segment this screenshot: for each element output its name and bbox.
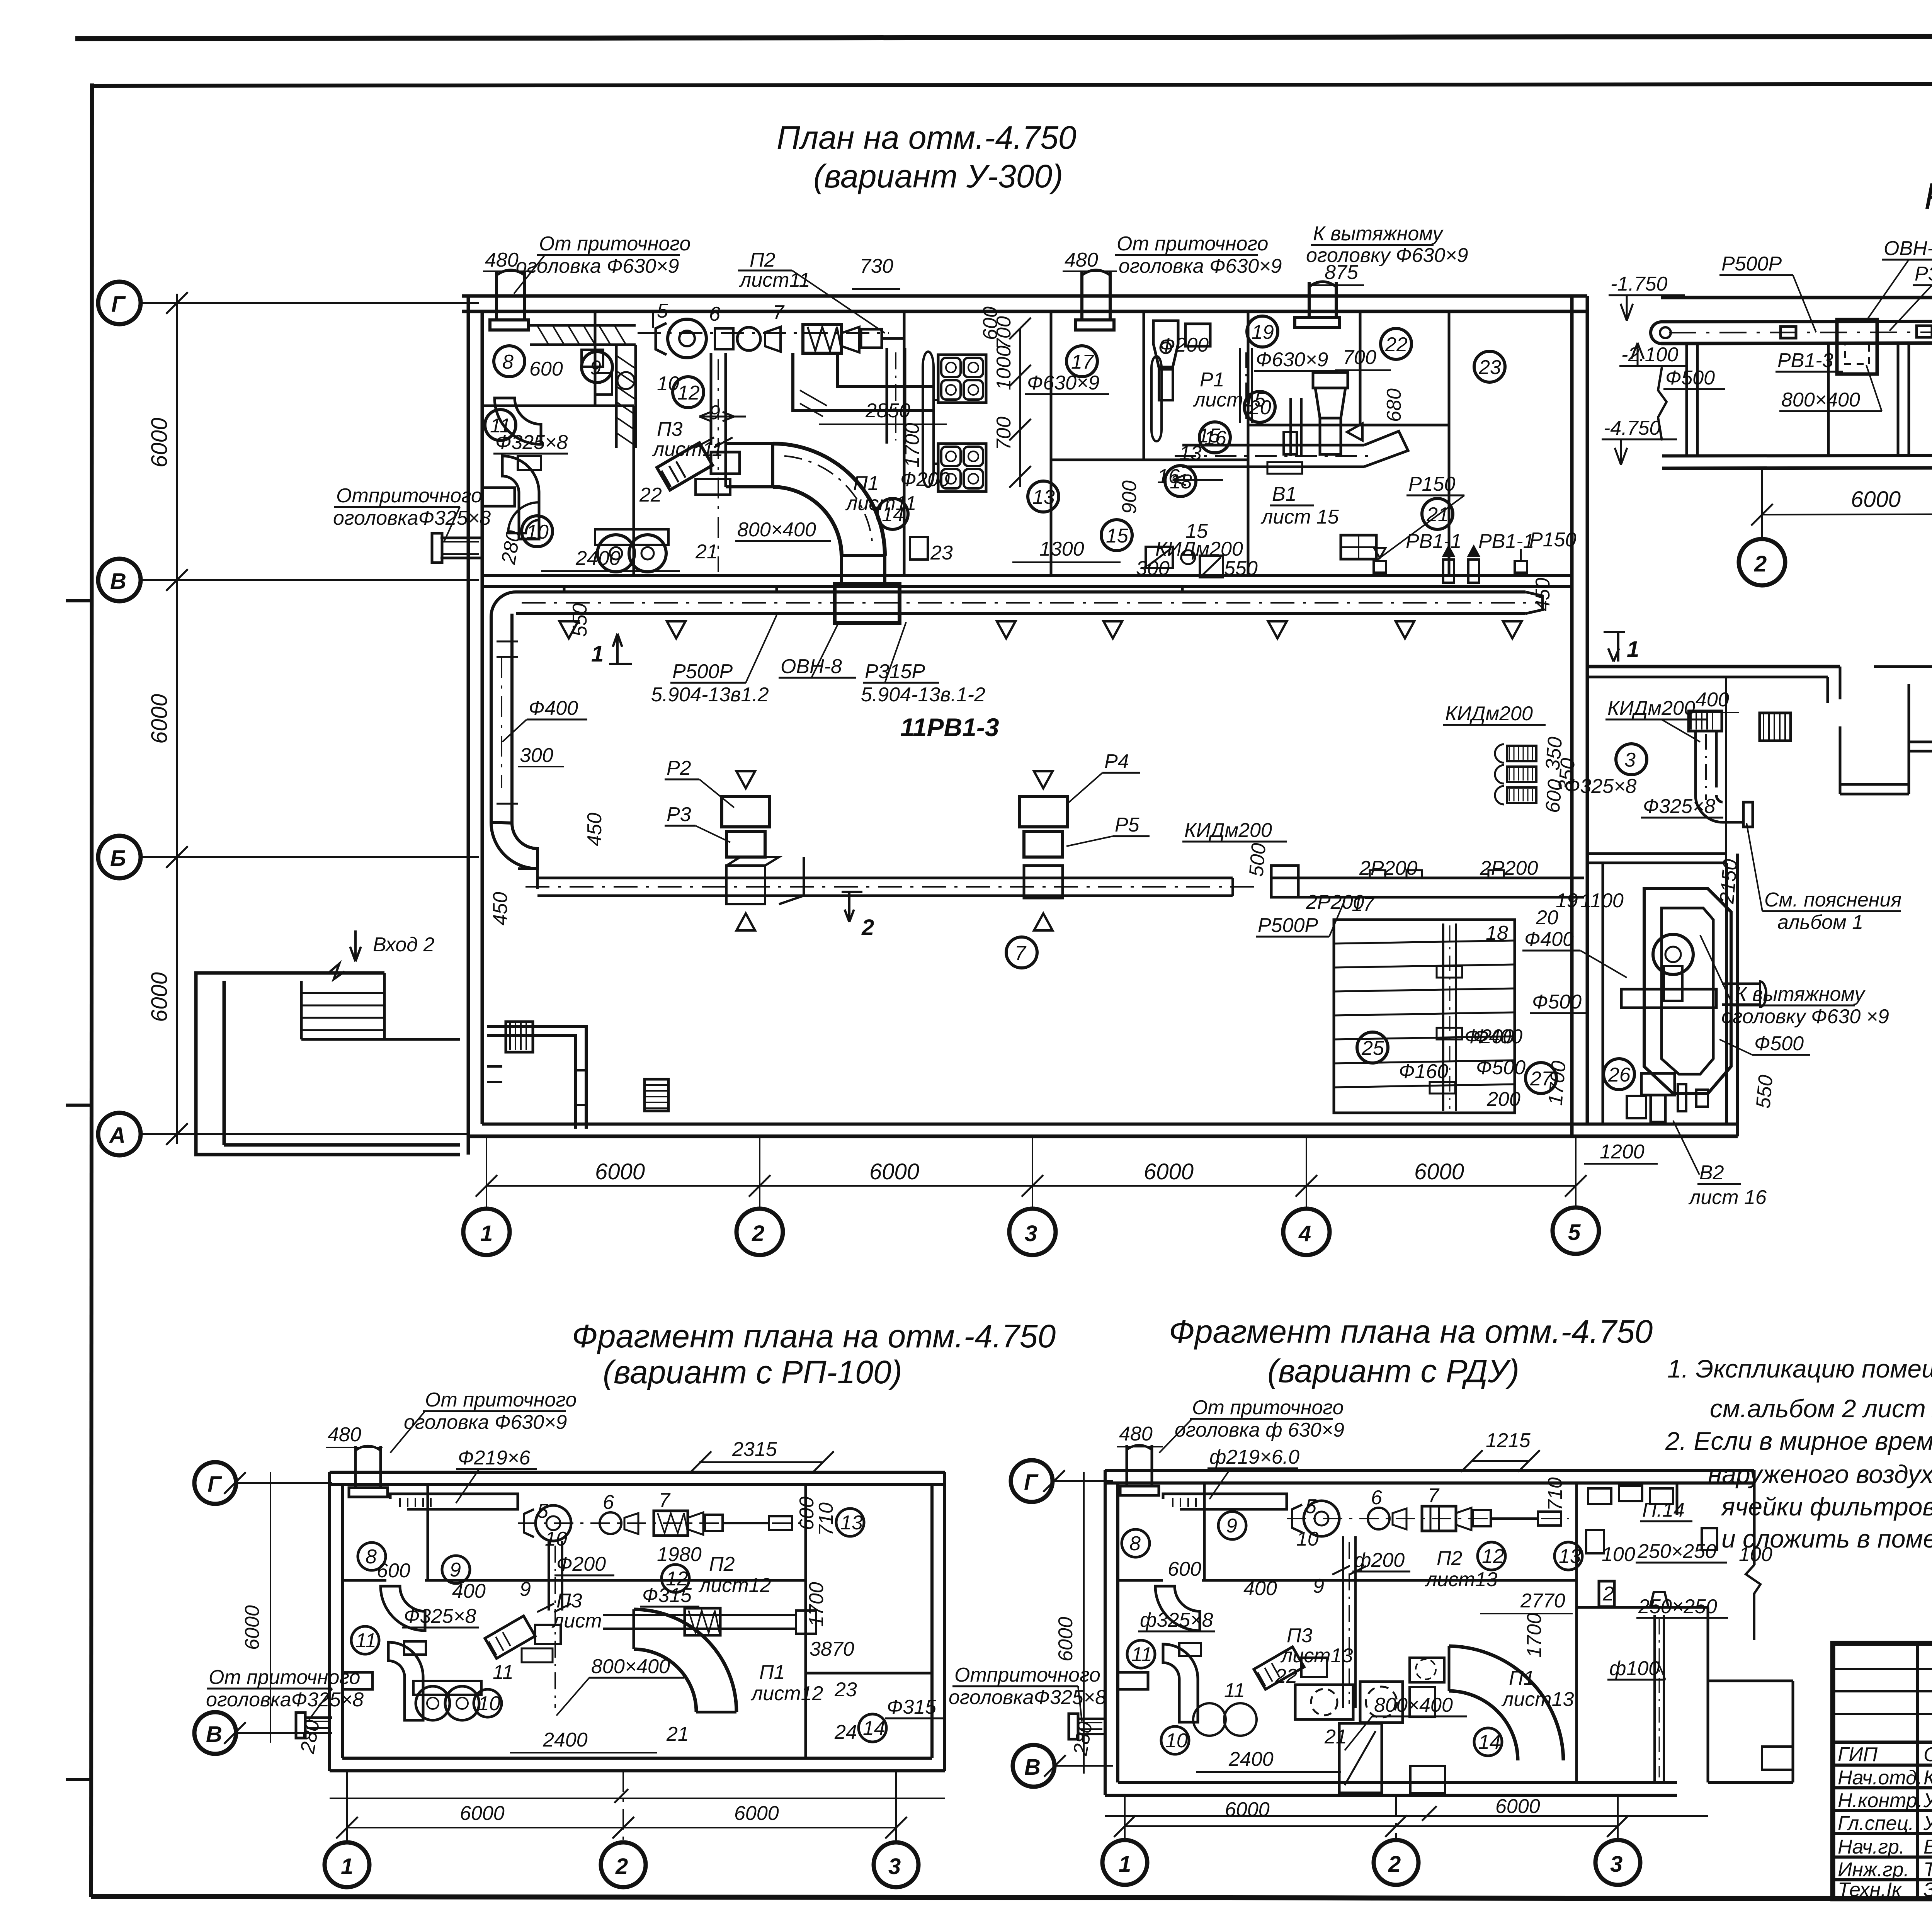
svg-text:12: 12 — [677, 382, 700, 404]
svg-text:10: 10 — [545, 1528, 567, 1550]
svg-text:5: 5 — [1305, 1495, 1317, 1518]
svg-text:16: 16 — [1157, 465, 1180, 488]
svg-text:6000: 6000 — [241, 1605, 264, 1650]
Ф630x9 horizontal duct room 18-16 — [1175, 431, 1408, 474]
КИДм200 stack left of appendix — [1495, 744, 1536, 804]
wall stub Ф325x8 left — [432, 533, 483, 563]
Ф200 capsule room 16 — [1151, 356, 1162, 441]
svg-text:9: 9 — [1226, 1515, 1237, 1537]
svg-text:23: 23 — [834, 1679, 857, 1701]
room 21 small damper box — [1341, 535, 1376, 559]
svg-text:5.904-13в1.2: 5.904-13в1.2 — [651, 684, 769, 706]
svg-text:ф100: ф100 — [1609, 1657, 1660, 1680]
svg-text:7: 7 — [659, 1489, 671, 1512]
svg-text:2: 2 — [861, 915, 874, 940]
П1 feeder duct horizontal — [726, 444, 773, 487]
svg-text:П3: П3 — [657, 418, 683, 440]
room 15 fittings — [1146, 547, 1195, 568]
fragment 2 П1 elbow — [1449, 1646, 1563, 1760]
svg-text:Р315Р: Р315Р — [865, 660, 925, 683]
svg-text:6000: 6000 — [1851, 487, 1901, 512]
svg-text:800×400: 800×400 — [1374, 1694, 1453, 1716]
svg-text:ф325×8: ф325×8 — [1140, 1609, 1213, 1631]
svg-text:(вариант с РДУ): (вариант с РДУ) — [1267, 1353, 1519, 1389]
svg-text:Г: Г — [111, 292, 126, 317]
svg-text:23: 23 — [1478, 356, 1501, 379]
svg-text:8: 8 — [366, 1546, 377, 1568]
fragment 1 title — [572, 1318, 1056, 1390]
svg-text:Усенкав: Усенкав — [1923, 1789, 1932, 1812]
svg-text:480: 480 — [328, 1423, 361, 1446]
svg-text:Ф325×8: Ф325×8 — [1564, 775, 1636, 798]
fragment 2 equipment chain — [1287, 1501, 1569, 1536]
svg-text:П2: П2 — [1437, 1547, 1463, 1570]
svg-text:600: 600 — [529, 358, 563, 380]
svg-text:13: 13 — [840, 1512, 863, 1534]
svg-text:700: 700 — [1343, 346, 1376, 369]
svg-text:500: 500 — [1245, 842, 1270, 878]
svg-text:10: 10 — [657, 372, 679, 395]
svg-text:550: 550 — [1224, 557, 1258, 580]
svg-text:(вариант с РП-100): (вариант с РП-100) — [603, 1354, 902, 1390]
axis circle В — [98, 559, 479, 601]
svg-text:В: В — [110, 569, 126, 594]
svg-text:21: 21 — [1324, 1726, 1347, 1748]
svg-text:П3: П3 — [556, 1590, 582, 1612]
svg-text:6000: 6000 — [1144, 1159, 1194, 1184]
svg-text:2Р200: 2Р200 — [1480, 857, 1538, 879]
fragment 2 grid circles and dims — [1102, 1795, 1708, 1885]
duct stubs on В wall — [564, 587, 1182, 593]
svg-text:Ф400: Ф400 — [529, 697, 578, 719]
svg-text:700: 700 — [993, 417, 1015, 450]
П2 chain drop duct — [887, 348, 905, 444]
frame bottom — [91, 1896, 1932, 1900]
svg-text:оголовка Ф630×9: оголовка Ф630×9 — [404, 1411, 567, 1434]
svg-text:5.904-13в.1-2: 5.904-13в.1-2 — [861, 684, 985, 706]
svg-text:1: 1 — [341, 1854, 353, 1879]
fragment 1 labels — [206, 1389, 943, 1755]
svg-text:лист11: лист11 — [845, 492, 917, 515]
svg-text:11: 11 — [1224, 1679, 1245, 1702]
fragment 2 title — [1169, 1313, 1653, 1389]
svg-text:800×400: 800×400 — [591, 1655, 670, 1678]
svg-text:11РВ1-3: 11РВ1-3 — [900, 713, 999, 742]
svg-text:6000: 6000 — [1414, 1159, 1464, 1184]
fragment 1 vertical dim 6000 — [241, 1472, 270, 1743]
svg-text:9: 9 — [1313, 1575, 1324, 1597]
section 1-1 main duct — [1661, 320, 1932, 344]
РВ1-1 risers — [1443, 546, 1480, 583]
svg-text:1: 1 — [1627, 637, 1639, 662]
В2 unit — [1627, 1073, 1708, 1122]
Р150 outlet right — [1515, 549, 1527, 573]
svg-text:Васильева: Васильева — [1923, 1836, 1932, 1858]
svg-text:КИДм200: КИДм200 — [1607, 697, 1695, 719]
svg-text:550: 550 — [569, 603, 591, 637]
svg-text:10: 10 — [1165, 1730, 1188, 1752]
svg-text:2400: 2400 — [1228, 1748, 1274, 1770]
svg-text:Ф400: Ф400 — [1524, 928, 1574, 951]
svg-text:6000: 6000 — [595, 1159, 645, 1184]
svg-text:Вход 2: Вход 2 — [373, 934, 434, 956]
left elbows room 11 — [482, 398, 541, 539]
fragment 1 Ф315 duct with spring box — [603, 1608, 816, 1635]
section 1-1 dimension line — [1751, 485, 1932, 526]
svg-text:КИДм200: КИДм200 — [1445, 702, 1533, 725]
svg-text:23: 23 — [930, 542, 953, 564]
svg-text:Отприточного: Отприточного — [954, 1664, 1100, 1686]
svg-text:6000: 6000 — [734, 1802, 779, 1825]
svg-text:лист13: лист13 — [1501, 1688, 1574, 1711]
fragment 1 walls — [330, 1472, 945, 1771]
svg-text:В1: В1 — [1272, 483, 1297, 505]
fragment 1 duct from intake — [390, 1494, 518, 1509]
svg-text:Ф500: Ф500 — [1532, 991, 1582, 1013]
fragment 2 duct from intake — [1163, 1494, 1287, 1509]
svg-text:480: 480 — [485, 249, 519, 271]
svg-text:6000: 6000 — [147, 418, 172, 468]
room 9 fittings — [582, 350, 634, 395]
svg-text:Р500Р: Р500Р — [1258, 914, 1318, 937]
svg-text:20: 20 — [1536, 906, 1558, 929]
Р4 Р5 boxes — [1019, 771, 1067, 930]
svg-text:лист13: лист13 — [1425, 1568, 1497, 1591]
svg-text:От приточного: От приточного — [1117, 233, 1268, 255]
svg-text:Г: Г — [1024, 1470, 1039, 1495]
svg-text:9: 9 — [520, 1578, 531, 1600]
svg-text:1100: 1100 — [1580, 889, 1624, 912]
svg-text:11: 11 — [493, 1661, 514, 1684]
svg-text:1215: 1215 — [1486, 1429, 1531, 1452]
svg-text:400: 400 — [452, 1580, 486, 1602]
entrance Вход 2 — [196, 930, 460, 1155]
П1 shaft to ОВН-8 — [842, 556, 885, 584]
svg-text:13: 13 — [1559, 1545, 1581, 1568]
svg-text:600: 600 — [1168, 1558, 1201, 1580]
svg-text:400: 400 — [1696, 689, 1729, 711]
svg-text:ОВН-8: ОВН-8 — [781, 655, 842, 678]
svg-text:2315: 2315 — [732, 1438, 777, 1461]
svg-text:Ф500: Ф500 — [1754, 1032, 1804, 1055]
svg-text:18: 18 — [1486, 922, 1508, 944]
svg-text:и сложить в помещениях N 8,10: и сложить в помещениях N 8,10,17 — [1721, 1524, 1932, 1553]
svg-text:21: 21 — [666, 1723, 689, 1745]
svg-text:От приточного: От приточного — [209, 1666, 360, 1689]
svg-text:3870: 3870 — [810, 1638, 854, 1660]
svg-text:19: 19 — [1252, 321, 1274, 344]
svg-text:П1: П1 — [853, 472, 879, 495]
svg-text:1: 1 — [1119, 1852, 1131, 1877]
svg-text:25: 25 — [1361, 1037, 1384, 1060]
sheet top scan line — [75, 36, 1932, 39]
svg-text:лист15: лист15 — [1193, 389, 1266, 411]
svg-text:1700: 1700 — [1523, 1613, 1546, 1658]
svg-text:лист11: лист11 — [652, 438, 723, 461]
svg-text:оголовкаФ325×8: оголовкаФ325×8 — [949, 1686, 1106, 1709]
svg-text:6: 6 — [603, 1491, 614, 1514]
svg-text:3: 3 — [888, 1854, 901, 1879]
svg-text:10: 10 — [478, 1692, 500, 1715]
svg-text:Отприточного: Отприточного — [336, 485, 482, 507]
left wall — [468, 296, 482, 1155]
svg-text:П1: П1 — [759, 1661, 785, 1684]
svg-text:П3: П3 — [1287, 1624, 1313, 1647]
svg-text:11: 11 — [355, 1629, 376, 1652]
svg-text:оголовкаФ325×8: оголовкаФ325×8 — [333, 507, 491, 529]
Р150 outlet left — [1374, 548, 1386, 573]
svg-text:6000: 6000 — [1495, 1795, 1540, 1818]
axis circle Г — [98, 282, 479, 324]
room 17 funnel unit — [1153, 321, 1210, 400]
svg-text:От приточного: От приточного — [425, 1389, 577, 1411]
section 1-1 floor — [1662, 454, 1932, 468]
fragment 1 left elbows — [342, 1586, 426, 1720]
fragment 1 П3 diagonal — [485, 1616, 561, 1662]
fragment 1 axis Г — [194, 1462, 332, 1504]
svg-text:Р315Р: Р315Р — [1915, 263, 1932, 285]
svg-text:1. Экспликацию помещений: 1. Экспликацию помещений — [1667, 1354, 1932, 1383]
svg-text:2. Если в мирное время очистк: 2. Если в мирное время очистка — [1665, 1427, 1932, 1455]
fragment 2 room circles — [1122, 1512, 1582, 1756]
svg-text:В2: В2 — [1699, 1162, 1724, 1184]
svg-text:Ф219×6: Ф219×6 — [458, 1447, 530, 1469]
svg-text:15: 15 — [1198, 425, 1221, 447]
svg-text:2150: 2150 — [1716, 858, 1742, 905]
axis circle Б — [98, 836, 479, 878]
svg-text:7: 7 — [1015, 942, 1027, 964]
svg-text:К вытяжному: К вытяжному — [1313, 223, 1444, 245]
В1 funnel unit — [1313, 372, 1362, 454]
svg-text:Р2: Р2 — [667, 757, 691, 779]
main plan dimension and code labels — [333, 223, 1577, 611]
svg-text:оголовка Ф630×9: оголовка Ф630×9 — [516, 255, 679, 277]
svg-text:1700: 1700 — [1544, 1060, 1570, 1106]
svg-text:Ф325×8: Ф325×8 — [495, 431, 568, 454]
fragment 1 equipment chain — [518, 1505, 804, 1541]
frame left — [91, 83, 92, 1897]
svg-text:Козлов: Козлов — [1923, 1767, 1932, 1789]
svg-text:Ф500: Ф500 — [1665, 367, 1715, 389]
svg-text:13: 13 — [1032, 486, 1055, 509]
svg-text:ОВН-8: ОВН-8 — [1884, 237, 1932, 260]
svg-text:Инж.гр.: Инж.гр. — [1838, 1859, 1909, 1881]
svg-text:8: 8 — [1129, 1532, 1141, 1555]
svg-text:-4.750: -4.750 — [1604, 417, 1661, 439]
svg-text:ячейки фильтров ФЯРБ демонтиро: ячейки фильтров ФЯРБ демонтировать — [1721, 1492, 1932, 1521]
svg-text:лист: лист — [551, 1610, 602, 1632]
svg-text:22: 22 — [1385, 333, 1408, 356]
fragment 2 Ф100 riser — [1650, 1592, 1668, 1781]
svg-text:Самитов: Самитов — [1923, 1743, 1932, 1766]
svg-text:700: 700 — [993, 316, 1015, 350]
unit ОВН-8 in section — [1837, 320, 1877, 374]
svg-text:6000: 6000 — [147, 694, 172, 744]
fragment 2 left elbows — [1118, 1586, 1257, 1736]
svg-text:Ф630×9: Ф630×9 — [1256, 349, 1328, 371]
fragment 2 top-right boxes — [1586, 1486, 1717, 1607]
svg-text:710: 710 — [1544, 1477, 1566, 1511]
svg-text:17: 17 — [1071, 351, 1094, 373]
svg-text:710: 710 — [815, 1502, 837, 1536]
svg-text:1700: 1700 — [901, 423, 923, 468]
svg-text:730: 730 — [860, 255, 893, 277]
svg-text:900: 900 — [1118, 480, 1141, 514]
plan title — [777, 119, 1077, 194]
svg-text:От приточного: От приточного — [1192, 1396, 1344, 1419]
unit ОВН-8 on duct — [835, 584, 900, 623]
svg-text:Ф160: Ф160 — [1399, 1060, 1448, 1083]
svg-text:3: 3 — [1610, 1852, 1622, 1877]
shaft grille on bottom wall — [645, 1079, 668, 1111]
svg-text:5: 5 — [657, 300, 668, 322]
Р2 Р3 boxes — [722, 771, 804, 930]
svg-text:Р4: Р4 — [1104, 750, 1129, 773]
appendix elbow duct Ф325x8 — [1689, 711, 1753, 827]
riser duct from chain — [696, 353, 733, 572]
svg-text:Ф325×8: Ф325×8 — [1643, 795, 1715, 818]
В1 vertical pipe pair — [1284, 398, 1301, 456]
appendix lower room walls — [1603, 854, 1738, 1136]
svg-text:см.альбом 2 лист АР-4: см.альбом 2 лист АР-4 — [1710, 1394, 1932, 1423]
svg-text:П1: П1 — [1509, 1667, 1535, 1689]
svg-text:альбом 1: альбом 1 — [1777, 911, 1863, 934]
svg-text:Гл.спец.: Гл.спец. — [1838, 1812, 1914, 1835]
vertical dim line room 12 — [1009, 318, 1031, 488]
svg-text:А: А — [109, 1123, 126, 1148]
svg-text:Р1: Р1 — [1200, 369, 1225, 391]
bottom wall — [468, 1124, 1738, 1136]
svg-text:26: 26 — [1608, 1064, 1631, 1086]
svg-text:4: 4 — [1298, 1221, 1311, 1246]
fragment 1 riser Ф200 — [537, 1541, 571, 1708]
svg-text:14: 14 — [863, 1717, 885, 1740]
svg-text:2850: 2850 — [865, 400, 910, 422]
room 17 funnel device 2 — [1240, 348, 1252, 423]
fragment 2 riser Ф200 dashed — [1332, 1536, 1366, 1708]
svg-text:19: 19 — [1556, 889, 1578, 912]
svg-text:12: 12 — [1482, 1545, 1504, 1568]
svg-text:400: 400 — [1243, 1577, 1277, 1600]
svg-text:РВ1-1: РВ1-1 — [1478, 530, 1534, 553]
equipment chain П2 rooms 9-12 — [638, 311, 904, 358]
axis circle А — [98, 1113, 468, 1155]
fragment 2 П3 diagonal — [1254, 1647, 1327, 1689]
svg-text:2: 2 — [1754, 551, 1767, 577]
svg-text:2: 2 — [615, 1854, 628, 1879]
svg-text:8: 8 — [502, 351, 514, 373]
svg-text:680: 680 — [1383, 388, 1405, 422]
svg-text:наруженого воздуха не требуетс: наруженого воздуха не требуется, — [1708, 1460, 1932, 1488]
duct hangers triangles — [560, 621, 1522, 638]
svg-text:Ф200: Ф200 — [1159, 334, 1209, 356]
svg-text:3: 3 — [1025, 1221, 1037, 1246]
svg-text:450: 450 — [583, 813, 606, 846]
svg-text:6000: 6000 — [1054, 1617, 1077, 1662]
svg-text:22: 22 — [1275, 1665, 1298, 1687]
svg-text:2Р200: 2Р200 — [1306, 891, 1364, 913]
svg-text:100: 100 — [1602, 1543, 1635, 1566]
svg-text:-2.100: -2.100 — [1621, 344, 1679, 366]
svg-text:3: 3 — [1624, 749, 1636, 771]
svg-text:550: 550 — [1752, 1074, 1777, 1109]
svg-text:15: 15 — [1106, 525, 1129, 547]
svg-text:1000: 1000 — [993, 345, 1015, 390]
title block signature rows — [1838, 1743, 1932, 1901]
svg-text:лист12: лист12 — [750, 1682, 823, 1705]
right wall upper — [1572, 296, 1587, 1136]
svg-text:РВ1-1: РВ1-1 — [1406, 530, 1462, 553]
section 1-1 grid circles — [1739, 468, 1932, 586]
svg-text:300: 300 — [1136, 557, 1170, 580]
svg-text:лист 15: лист 15 — [1260, 506, 1339, 528]
svg-text:Усенкав: Усенкав — [1923, 1812, 1932, 1835]
svg-text:К вытяжному: К вытяжному — [1735, 983, 1866, 1005]
svg-text:П2: П2 — [709, 1553, 735, 1575]
horizontal duct on Б axis — [518, 869, 1260, 896]
fold marks left frame — [66, 601, 92, 1779]
svg-text:Р150: Р150 — [1529, 529, 1577, 551]
svg-text:Захарова: Захарова — [1923, 1879, 1932, 1901]
svg-text:Техн.Iк: Техн.Iк — [1838, 1879, 1902, 1901]
section 1-1 columns — [1687, 341, 1932, 456]
svg-text:250×250: 250×250 — [1637, 1540, 1716, 1563]
svg-text:оголовкаФ325×8: оголовкаФ325×8 — [206, 1689, 364, 1711]
svg-text:2400: 2400 — [543, 1729, 588, 1751]
svg-text:оголовку Ф630 ×9: оголовку Ф630 ×9 — [1721, 1005, 1889, 1028]
dashed duct along top wall rooms 8-9 — [530, 325, 636, 448]
svg-text:лист12: лист12 — [698, 1574, 771, 1597]
svg-text:2400: 2400 — [575, 547, 621, 570]
top wall — [462, 296, 1587, 311]
fragment 2 shaft 800x400 — [1339, 1723, 1445, 1793]
svg-text:6: 6 — [709, 303, 720, 325]
frame top — [92, 83, 1932, 86]
svg-text:9: 9 — [450, 1559, 461, 1581]
svg-text:1: 1 — [480, 1221, 493, 1246]
svg-text:9: 9 — [590, 357, 601, 379]
svg-text:22: 22 — [639, 484, 662, 506]
svg-text:14: 14 — [1478, 1731, 1501, 1753]
svg-text:Ф200: Ф200 — [556, 1553, 606, 1575]
svg-text:300: 300 — [520, 744, 553, 767]
svg-text:Г: Г — [207, 1472, 222, 1497]
elbow duct chain to filters — [793, 353, 935, 417]
intake stack 3 — [1295, 282, 1339, 328]
svg-text:800×400: 800×400 — [1781, 389, 1860, 411]
svg-text:Нач.гр.: Нач.гр. — [1838, 1836, 1905, 1858]
long exhaust duct below В wall — [516, 592, 1543, 614]
svg-text:6000: 6000 — [147, 972, 172, 1022]
svg-text:480: 480 — [1119, 1423, 1153, 1445]
fragment 1 room circles — [351, 1509, 886, 1742]
svg-text:2Р200: 2Р200 — [1359, 857, 1417, 879]
svg-text:Р150: Р150 — [1408, 473, 1456, 495]
stairs block — [1334, 920, 1515, 1113]
П1 big elbow 800x400 — [773, 444, 885, 556]
fragment 1 left stub — [296, 1713, 332, 1738]
svg-text:1700: 1700 — [805, 1582, 828, 1627]
svg-text:200: 200 — [1486, 1088, 1520, 1111]
svg-text:10: 10 — [1296, 1528, 1319, 1550]
left elbow Ф500 — [1651, 322, 1671, 344]
fragment 2 walls — [1105, 1470, 1793, 1795]
svg-text:450: 450 — [1532, 578, 1554, 611]
appendix octagonal duct loop Ф500 — [1621, 889, 1766, 1094]
fragment 2 axis В — [1013, 1745, 1113, 1787]
section 1-1 ceiling — [1661, 296, 1932, 299]
labels below В wall — [489, 603, 1639, 940]
